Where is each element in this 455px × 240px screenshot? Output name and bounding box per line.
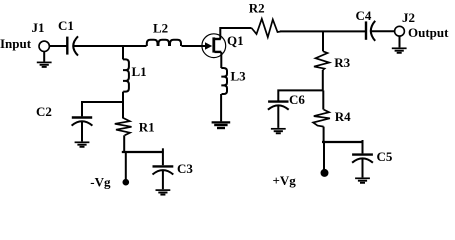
wire [82, 102, 123, 116]
ground [75, 142, 90, 147]
svg-text:R4: R4 [335, 109, 351, 124]
wire [220, 52, 222, 68]
svg-text:Q1: Q1 [227, 33, 244, 48]
wire [74, 45, 147, 47]
svg-text:R2: R2 [249, 0, 265, 15]
ground [271, 129, 286, 134]
wire [182, 45, 207, 47]
inductor L1 [123, 59, 129, 91]
wire [399, 36, 401, 47]
svg-text:L1: L1 [132, 64, 147, 79]
wire [323, 142, 325, 170]
resistor R1 [115, 118, 132, 135]
wire [43, 52, 45, 62]
node C [322, 31, 324, 51]
svg-text:J2: J2 [402, 10, 415, 25]
wire [122, 92, 124, 119]
svg-text:C2: C2 [36, 104, 52, 119]
inductor L2 [147, 40, 181, 46]
capacitor C2 [72, 118, 93, 126]
wire [162, 170, 164, 189]
resistor R2 [252, 19, 281, 37]
wire [125, 152, 127, 180]
svg-text:-Vg: -Vg [90, 174, 111, 189]
inductor L3 [221, 68, 227, 94]
terminal -Vg [123, 179, 130, 186]
ground [37, 62, 52, 67]
svg-text:C4: C4 [356, 8, 372, 23]
wire [323, 127, 325, 142]
capacitor C5 [352, 155, 373, 163]
svg-text:J1: J1 [32, 20, 45, 35]
ground [156, 190, 171, 195]
wire [220, 28, 251, 39]
wire [49, 45, 67, 47]
wire [322, 70, 324, 90]
wire [277, 105, 279, 128]
svg-text:R3: R3 [334, 55, 350, 70]
svg-text:C1: C1 [58, 18, 74, 33]
capacitor C1 [67, 36, 78, 55]
svg-text:C6: C6 [289, 92, 305, 107]
terminal +Vg [321, 169, 329, 177]
transistor Q1 [202, 34, 226, 58]
capacitor C3 [153, 166, 174, 174]
svg-text:C3: C3 [177, 161, 193, 176]
svg-text:C5: C5 [377, 149, 393, 164]
connector J2 [395, 26, 405, 36]
wire [81, 121, 83, 141]
wire [371, 30, 394, 32]
wire [322, 90, 324, 109]
wire [123, 135, 125, 152]
capacitor C4 [366, 21, 375, 41]
wire [280, 30, 366, 32]
node B [122, 151, 164, 153]
ground [392, 48, 407, 53]
svg-text:L3: L3 [231, 68, 247, 83]
svg-text:Output: Output [408, 25, 449, 40]
wire [162, 148, 164, 165]
svg-text:L2: L2 [153, 20, 168, 35]
svg-text:R1: R1 [139, 120, 155, 135]
svg-text:Input: Input [0, 36, 32, 51]
resistor R4 [313, 110, 330, 127]
ground [212, 122, 231, 128]
wire [362, 140, 364, 153]
node D [322, 141, 363, 143]
wire [278, 90, 323, 100]
connector J1 [39, 41, 49, 51]
svg-text:+Vg: +Vg [273, 173, 297, 188]
wire [220, 94, 222, 121]
ground [355, 178, 370, 183]
resistor R3 [314, 51, 329, 70]
wire [362, 158, 364, 177]
node A [122, 46, 124, 59]
capacitor C6 [268, 102, 289, 110]
